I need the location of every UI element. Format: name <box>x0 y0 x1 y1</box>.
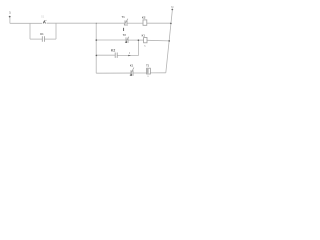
svg-text:T1: T1 <box>146 64 150 68</box>
svg-text:1: 1 <box>9 10 11 14</box>
svg-text:T2: T2 <box>123 33 127 37</box>
svg-text:T1: T1 <box>122 15 126 19</box>
svg-text:s: s <box>147 75 149 78</box>
svg-text:K1: K1 <box>142 33 146 37</box>
svg-text:5: 5 <box>144 44 146 48</box>
svg-text:S1: S1 <box>41 15 45 19</box>
svg-text:K1: K1 <box>40 32 44 36</box>
svg-text:K2: K2 <box>111 48 115 52</box>
svg-text:K1: K1 <box>130 63 134 67</box>
svg-text:K2: K2 <box>142 16 146 20</box>
svg-text:N: N <box>171 5 173 9</box>
